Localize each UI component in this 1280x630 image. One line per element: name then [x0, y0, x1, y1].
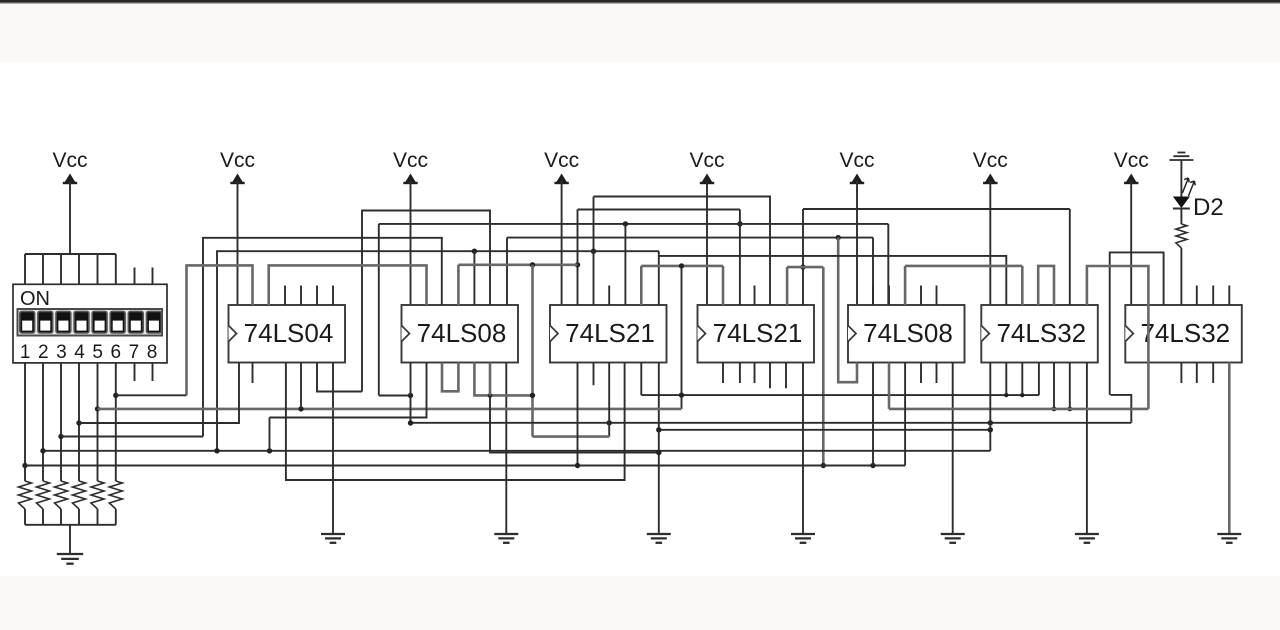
wire net seg266 — [905, 265, 1022, 268]
wire net B5a — [61, 436, 203, 438]
node B6b-gnd — [656, 450, 661, 455]
wire U5 pin3 riser — [887, 224, 889, 305]
node D-U3pin2 — [575, 262, 580, 267]
node B8-U5pin2 — [870, 463, 875, 468]
wire U5 pin3 drop — [888, 363, 891, 409]
svg-text:D2: D2 — [1193, 194, 1224, 221]
U7 pin stub bottom 5 — [1196, 363, 1198, 384]
svg-text:Vcc: Vcc — [220, 149, 255, 172]
svg-text:Vcc: Vcc — [689, 149, 724, 172]
svg-text:Vcc: Vcc — [52, 149, 87, 172]
wire U6 pin 2 drop — [1005, 363, 1007, 396]
DIP switch pin 7 top stub — [134, 268, 136, 285]
U7 pin stub top 6 — [1212, 286, 1214, 306]
wire U4 pin2 riser — [722, 266, 725, 305]
wire DIP pin 4 down — [78, 363, 80, 481]
IC U2 74LS08 — [402, 305, 519, 363]
svg-text:Vcc: Vcc — [973, 149, 1008, 172]
wire 681 drop — [681, 266, 683, 409]
wire net B2 — [98, 408, 682, 411]
wire net T5b — [1110, 252, 1164, 395]
DIP switch pin 8 top stub — [152, 268, 154, 285]
ground under U1 — [321, 534, 345, 543]
wire net T3 — [379, 223, 889, 225]
wire bus to ground — [69, 525, 71, 554]
ground under U4 — [791, 534, 815, 543]
wire U6 pin6 riser — [1069, 209, 1071, 305]
svg-text:8: 8 — [147, 342, 158, 363]
wire U3 pin2 drop — [577, 363, 579, 466]
wire U7 pin 7 to ground — [1228, 363, 1231, 535]
wire U6 pin1 drop — [989, 363, 991, 451]
svg-text:74LS08: 74LS08 — [863, 318, 953, 348]
U5 pin stub bottom 5 — [920, 363, 922, 384]
wire U2 pin6 drop — [489, 363, 492, 396]
wire 532 drop — [531, 265, 534, 437]
wire 838 jog to U5 pin1 — [838, 238, 857, 383]
wire D2 to R8 — [1180, 209, 1182, 225]
wire net grayh267 — [787, 266, 823, 269]
wire DIP pin 2 down — [42, 363, 44, 481]
wire net U2 pins3-4 link — [442, 363, 458, 392]
ground under resistor network — [57, 554, 83, 564]
wire DIP pin 1 down — [24, 363, 26, 481]
wire net T2b — [578, 209, 740, 211]
wire U6 pin 4 drop — [1038, 363, 1040, 396]
node junction DIP pin 4 — [76, 420, 81, 425]
node B2b-U6pin6 — [1067, 407, 1072, 412]
wire U4 pin7 riser — [802, 209, 804, 305]
wire DIP pin 6 down — [115, 363, 117, 481]
node junction DIP pin 6 — [113, 393, 118, 398]
DIP switch S1 — [13, 284, 167, 363]
node B6-270 — [267, 448, 272, 453]
wire U4 pin 7 to ground — [802, 363, 804, 535]
resistor bottom bus — [25, 524, 116, 526]
U1 pin stub top 7 — [332, 286, 334, 306]
power Vcc5 (IC4) — [689, 149, 724, 305]
wire U5 pin2 riser — [872, 238, 874, 305]
IC U4 74LS21 — [698, 305, 815, 363]
svg-text:ON: ON — [20, 288, 50, 310]
wire T3 to U2 pin1 foot — [379, 395, 411, 397]
wire net B6 — [44, 450, 991, 452]
U4 pin stub top 4 — [754, 286, 756, 306]
ground under U3 — [647, 534, 671, 543]
node B1-U6pin3 — [1020, 393, 1024, 397]
ground under U5 — [941, 534, 965, 543]
wire U6 pin 6 drop — [1069, 363, 1071, 409]
wire U1 pin6 jog — [317, 363, 362, 392]
node B1-U6pin2 — [1004, 393, 1008, 397]
U5 pin stub top 5 — [920, 286, 922, 306]
wire net B10 — [659, 429, 991, 431]
wire net U1pin3-U2pin2 — [269, 265, 427, 305]
wire U1 pin5 drop — [300, 363, 302, 409]
power bar above D2 — [1169, 153, 1193, 161]
wire net W6 top — [187, 265, 253, 395]
node B4-990 — [988, 420, 993, 425]
U1 pin stub top 4 — [284, 286, 286, 306]
wire U6 pin 5 drop — [1053, 363, 1055, 409]
power Vcc2 (IC1) — [220, 149, 255, 305]
wire U3 pin3 riser — [593, 197, 595, 306]
wire power to D2 — [1180, 160, 1182, 197]
resistor R8 — [1176, 224, 1187, 248]
wire net B4 — [411, 422, 1132, 424]
wire U5 pin4 riser — [904, 266, 907, 305]
svg-text:Vcc: Vcc — [544, 149, 579, 172]
U4 pin stub bottom 3 — [739, 363, 741, 384]
wire net T5 — [217, 251, 659, 451]
node B2-U1pin5 — [298, 406, 303, 411]
IC U6 74LS32 — [981, 305, 1098, 363]
wire U2 pin7 riser — [506, 238, 508, 305]
wire resistor R6 to bus — [115, 509, 117, 525]
svg-text:74LS21: 74LS21 — [713, 318, 803, 348]
svg-text:6: 6 — [111, 342, 122, 363]
resistor R4 — [73, 481, 86, 509]
node T3-U4pin3 — [737, 221, 742, 226]
svg-text:4: 4 — [74, 342, 85, 363]
ground under U2 — [494, 534, 518, 543]
DIP switch pin 8 bottom stub — [152, 363, 154, 381]
wire net B9 — [286, 363, 625, 481]
wire net U6 pins4-5 link — [1038, 266, 1054, 305]
node 410-423 — [408, 420, 413, 425]
wire net T5x — [659, 256, 1006, 305]
power Vcc1 (DIP) — [52, 149, 87, 254]
wire net T4b — [507, 237, 873, 239]
node T3-U3pin5 — [623, 221, 628, 226]
node junction DIP pin 5 — [95, 406, 100, 411]
wire net T1 — [594, 197, 771, 306]
wire net W5 top — [1087, 266, 1149, 409]
wire U2 pin5 riser — [473, 251, 475, 305]
wire U3 pin 7 to ground — [658, 363, 660, 535]
wire net B6b — [490, 395, 659, 452]
U3 pin stub top 4 — [608, 286, 610, 306]
IC U5 74LS08 — [848, 305, 965, 363]
node B1-681 — [679, 392, 684, 397]
wire U3 pin6 riser — [640, 266, 643, 305]
svg-text:74LS32: 74LS32 — [996, 318, 1086, 348]
wire resistor R3 to bus — [60, 509, 62, 525]
node 410-395 — [408, 393, 413, 398]
wire 823 drop — [822, 267, 825, 465]
LED D2 — [1173, 178, 1195, 209]
wire U5 pin2 drop — [872, 363, 874, 466]
wire net B3 — [79, 363, 239, 424]
node junction DIP pin 2 — [40, 448, 45, 453]
node B10-990 — [988, 427, 993, 432]
node B2b-U6pin5 — [1052, 407, 1057, 412]
node B8-U3pin2 — [575, 463, 580, 468]
wire U3 pin5 riser — [624, 224, 626, 305]
node B8-823 — [821, 463, 826, 468]
svg-text:Vcc: Vcc — [393, 149, 428, 172]
node 532-395 — [530, 393, 535, 398]
wire net T2c — [803, 208, 1070, 210]
wire U6 pin 7 to ground — [1086, 363, 1088, 535]
svg-text:Vcc: Vcc — [1114, 149, 1149, 172]
U7 pin stub bottom 4 — [1180, 363, 1182, 384]
power Vcc4 (IC3) — [544, 149, 579, 305]
wire U6 pin 3 drop — [1021, 363, 1023, 396]
resistor R6 — [109, 481, 122, 509]
wire 270 riser — [269, 418, 271, 451]
wire U2 pin4 riser — [457, 265, 460, 305]
resistor R5 — [91, 481, 104, 509]
wire U3 pin3 bottom stub — [593, 363, 595, 386]
U7 pin stub top 5 — [1196, 286, 1198, 306]
wire DIP pin 5 down — [97, 363, 99, 481]
svg-text:74LS04: 74LS04 — [244, 318, 334, 348]
wire U1 pin 7 to ground — [332, 363, 334, 535]
label D2 — [1193, 194, 1224, 221]
node B10-gnd — [656, 427, 661, 432]
power Vcc6 (IC5) — [839, 149, 874, 305]
wire DIP pin 3 down — [60, 363, 62, 481]
power Vcc8 (IC7) — [1114, 149, 1149, 305]
svg-text:5: 5 — [92, 342, 103, 363]
power Vcc7 (IC6) — [973, 149, 1008, 305]
ground under U6 — [1075, 534, 1099, 543]
wire U4 pin5 bottom stub — [769, 363, 771, 389]
DIP switch pin 7 bottom stub — [134, 363, 136, 381]
wire net B7 — [270, 363, 427, 418]
node D-532 — [530, 262, 535, 267]
wire U3 pin4 drop — [608, 363, 610, 437]
wire U2 pin 7 to ground — [505, 363, 507, 535]
wire U3 pin7 riser — [658, 251, 660, 305]
U5 pin stub top 3 — [888, 286, 890, 306]
wire net D — [458, 263, 577, 266]
ground under U7 — [1217, 534, 1241, 543]
wire U4 pin6 bottom stub — [785, 363, 787, 389]
IC U3 74LS21 — [550, 305, 667, 363]
wire U5 pin 7 to ground — [952, 363, 954, 535]
resistor R1 — [19, 481, 32, 509]
wire net B5b — [533, 435, 610, 438]
U5 pin stub bottom 6 — [936, 363, 938, 384]
node T5-U3pin3 — [591, 249, 596, 254]
U1 pin stub top 5 — [300, 286, 302, 306]
svg-text:3: 3 — [56, 342, 67, 363]
IC U7 74LS32 — [1125, 305, 1242, 363]
node B4-U3pin4 — [607, 420, 612, 425]
wire net B8 — [24, 465, 905, 467]
wire U4 pin6 riser — [786, 267, 789, 305]
wire resistor R2 to bus — [42, 509, 44, 525]
node junction DIP pin 1 — [22, 463, 27, 468]
wire resistor R1 to bus — [24, 509, 26, 525]
wire U4 pin3 riser — [739, 210, 741, 306]
wire net U2 pins5-6 link — [474, 363, 532, 396]
IC U1 74LS04 — [229, 305, 346, 363]
node T5-U2pin5 — [472, 249, 477, 254]
svg-text:74LS21: 74LS21 — [565, 318, 655, 348]
wire net T4a — [203, 238, 442, 437]
wire U5 pin4 drop — [904, 363, 906, 466]
svg-text:74LS08: 74LS08 — [417, 318, 507, 348]
wire net T2a — [362, 211, 490, 392]
U4 pin stub bottom 2 — [722, 363, 724, 384]
svg-text:74LS32: 74LS32 — [1140, 318, 1230, 348]
wire U2 pin1 drop — [410, 363, 412, 424]
node segD2-681 — [679, 263, 684, 268]
svg-text:2: 2 — [38, 342, 49, 363]
U5 pin stub top 6 — [936, 286, 938, 306]
node B6-217 — [214, 448, 219, 453]
U1 pin stub top 6 — [316, 286, 318, 306]
svg-text:7: 7 — [129, 342, 140, 363]
wire T5b jog right — [1111, 395, 1132, 423]
node grayh-U4pin7 — [800, 264, 805, 269]
U5 pin stub top 2 — [872, 286, 874, 306]
wire T3 left drop — [378, 224, 380, 396]
node 490-395 — [488, 393, 493, 398]
DIP switch top pin bus — [25, 254, 116, 284]
U7 pin stub bottom 6 — [1212, 363, 1214, 384]
wire R8 to U7 pin 4 — [1180, 248, 1182, 305]
wire net segD2 — [641, 265, 723, 268]
resistor R3 — [55, 481, 68, 509]
wire DIP6 to riser — [116, 394, 187, 396]
resistor R2 — [37, 481, 50, 509]
U1 pin stub bottom 2 — [252, 363, 254, 384]
power Vcc3 (IC2) — [393, 149, 428, 305]
wire net B2b — [889, 408, 1148, 411]
node T4b-838 — [836, 235, 841, 240]
svg-text:1: 1 — [20, 342, 31, 363]
wire U3 pin6 drop — [640, 363, 642, 396]
node junction DIP pin 3 — [58, 434, 63, 439]
U7 pin stub top 7 — [1228, 286, 1230, 306]
svg-text:Vcc: Vcc — [839, 149, 874, 172]
wire resistor R4 to bus — [78, 509, 80, 525]
wire U6 pin3 riser — [1021, 266, 1024, 305]
wire U3 pin2 riser — [577, 210, 579, 306]
wire resistor R5 to bus — [97, 509, 99, 525]
U4 pin stub bottom 4 — [754, 363, 756, 384]
wire net B1 — [641, 394, 1039, 396]
